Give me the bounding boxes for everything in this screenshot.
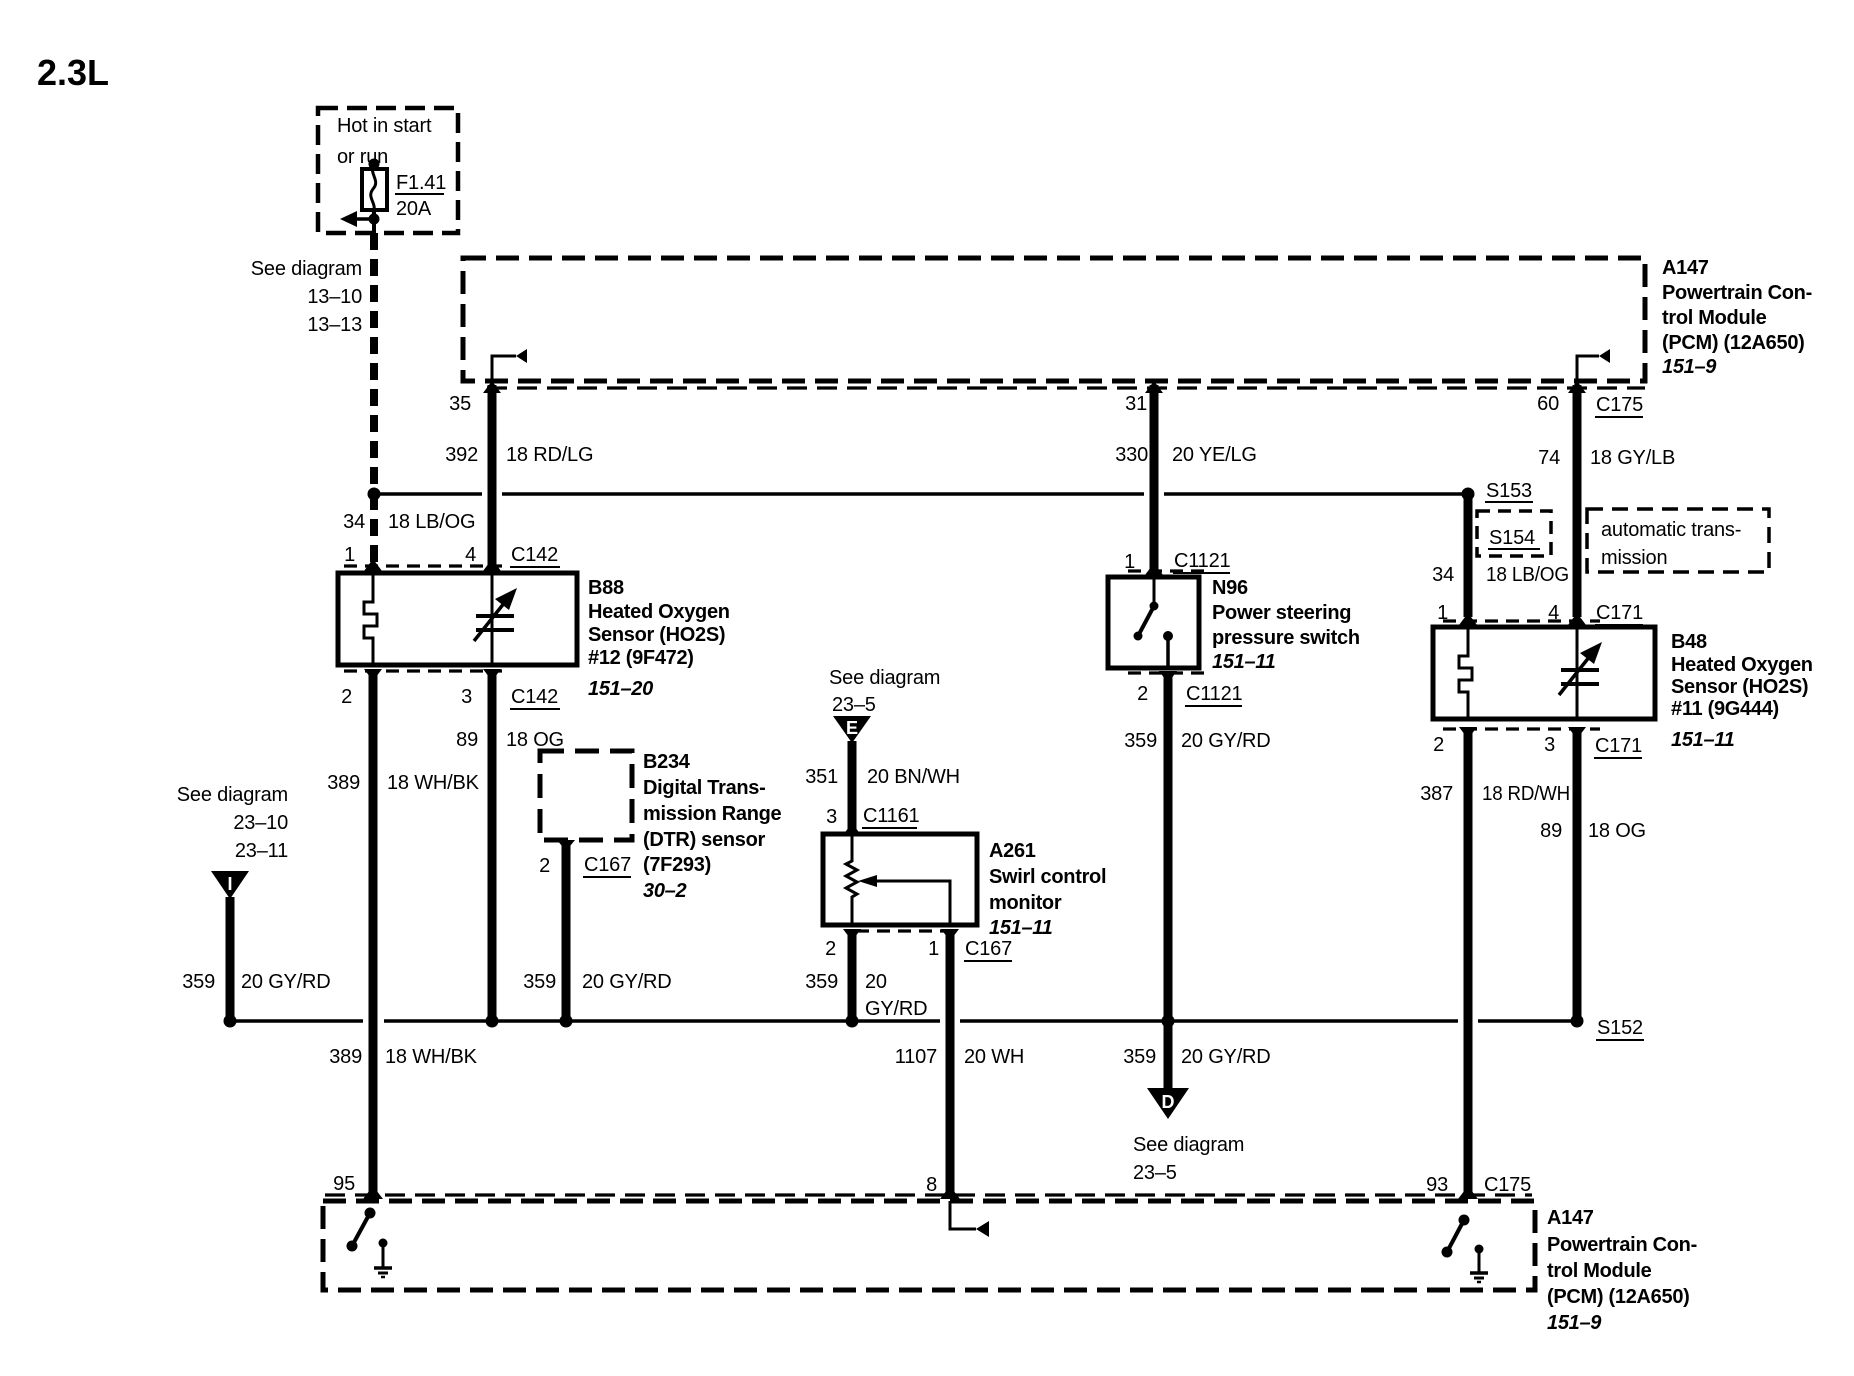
svg-text:89: 89 (456, 729, 478, 751)
automatic transmission note box (dashed) (1587, 509, 1769, 572)
svg-text:20 GY/RD: 20 GY/RD (241, 971, 331, 993)
svg-text:Swirl control: Swirl control (989, 866, 1106, 888)
svg-text:B88: B88 (588, 577, 624, 599)
svg-text:See diagram: See diagram (251, 258, 362, 280)
pin 95 arrow into PCM (363, 1186, 383, 1199)
svg-text:C142: C142 (511, 686, 558, 708)
PCM A147 bottom box (dashed) (323, 1201, 1535, 1290)
svg-text:389: 389 (329, 1046, 362, 1068)
connector C142 dashed line (bottom) (344, 669, 502, 672)
PCM internal stub arrow at pin 35 (492, 356, 516, 381)
wire 359 20 GY/RD : B234 pin 2 to S152 bus (562, 845, 571, 1021)
svg-text:A147: A147 (1547, 1207, 1594, 1229)
svg-text:pressure switch: pressure switch (1212, 627, 1360, 649)
B88 heater element (364, 573, 377, 665)
svg-text:4: 4 (465, 544, 476, 566)
svg-text:151–11: 151–11 (989, 917, 1053, 939)
svg-text:2.3L: 2.3L (37, 52, 109, 93)
svg-text:GY/RD: GY/RD (865, 998, 927, 1020)
svg-text:C175: C175 (1484, 1174, 1531, 1196)
A261 swirl control monitor box (823, 834, 977, 925)
svg-text:359: 359 (1123, 1046, 1156, 1068)
svg-text:See diagram: See diagram (829, 667, 940, 689)
svg-text:359: 359 (1124, 730, 1157, 752)
wire S153 to B48 pin 1 (1464, 494, 1473, 617)
pin 1 arrow into B88 (364, 559, 382, 571)
svg-text:(PCM) (12A650): (PCM) (12A650) (1662, 332, 1805, 354)
svg-text:(PCM) (12A650): (PCM) (12A650) (1547, 1286, 1690, 1308)
wire 1107 20 WH : A261 pin 1 to PCM pin 8 (946, 933, 955, 1192)
svg-text:2: 2 (1137, 683, 1148, 705)
pin 2 arrow out of B88 (364, 669, 382, 681)
A261 wiper arrow (877, 881, 950, 925)
B88 heated oxygen sensor box (338, 573, 577, 665)
svg-text:359: 359 (182, 971, 215, 993)
svg-text:Digital Trans-: Digital Trans- (643, 777, 766, 799)
svg-text:or run: or run (337, 146, 388, 168)
svg-text:35: 35 (449, 393, 471, 415)
svg-text:2: 2 (1433, 734, 1444, 756)
svg-text:8: 8 (926, 1174, 937, 1196)
svg-text:20 GY/RD: 20 GY/RD (582, 971, 672, 993)
svg-text:13–10: 13–10 (307, 286, 362, 308)
svg-text:(DTR) sensor: (DTR) sensor (643, 829, 765, 851)
svg-text:#12 (9F472): #12 (9F472) (588, 647, 694, 669)
svg-text:trol Module: trol Module (1662, 307, 1767, 329)
svg-text:C171: C171 (1595, 735, 1642, 757)
pin 1 arrow into N96 (1145, 563, 1163, 575)
pin 3 arrow out of B48 (1568, 727, 1586, 739)
wire (dashed) fuse to B88 pin 1, circuit 34 18 LB/OG (370, 233, 378, 563)
svg-text:20 BN/WH: 20 BN/WH (867, 766, 960, 788)
PCM internal stub arrow at pin 60 (1577, 356, 1599, 381)
svg-text:mission Range: mission Range (643, 803, 782, 825)
svg-text:A147: A147 (1662, 257, 1709, 279)
connector C1121 dashed line (top) (1128, 569, 1210, 572)
triangle E reference (833, 716, 871, 743)
fuse output stub arrow (352, 217, 374, 221)
wire 359 20 GY/RD : A261 pin 2 to S152 bus (848, 933, 857, 1021)
connector C142 dashed line (top) (344, 564, 502, 567)
svg-text:E: E (846, 718, 858, 738)
svg-text:18 LB/OG: 18 LB/OG (388, 511, 475, 533)
PCM internal switch to ground at pin 93 (1459, 1215, 1470, 1226)
pin 3 arrow out of B88 (483, 669, 501, 681)
PCM A147 top box (dashed) (463, 258, 1645, 381)
B48 heated oxygen sensor box (1433, 627, 1655, 719)
N96 switch (1153, 577, 1156, 605)
svg-text:18 GY/LB: 18 GY/LB (1590, 447, 1675, 469)
svg-text:93: 93 (1426, 1174, 1448, 1196)
svg-text:23–10: 23–10 (233, 812, 288, 834)
svg-text:18 LB/OG: 18 LB/OG (1486, 564, 1569, 586)
fuse F1.41 20A (369, 159, 380, 170)
svg-text:20 GY/RD: 20 GY/RD (1181, 730, 1271, 752)
svg-text:18 WH/BK: 18 WH/BK (387, 772, 480, 794)
svg-text:S152: S152 (1597, 1017, 1643, 1039)
wire 389 18 WH/BK : B88 pin 2 to PCM pin 95 (369, 672, 378, 1192)
svg-text:23–11: 23–11 (235, 840, 288, 862)
pin 2 arrow out of B48 (1459, 727, 1477, 739)
svg-text:B48: B48 (1671, 631, 1707, 653)
wire 74 18 GY/LB : PCM 60 to B48 pin 4 (1573, 385, 1582, 617)
triangle D reference (1147, 1088, 1189, 1119)
svg-text:34: 34 (343, 511, 365, 533)
svg-text:Powertrain Con-: Powertrain Con- (1662, 282, 1812, 304)
connector C171 dashed line (bottom) (1443, 727, 1600, 730)
svg-text:F1.41: F1.41 (396, 172, 446, 194)
svg-text:330: 330 (1115, 444, 1148, 466)
pin 2 arrow out of B234 (557, 840, 575, 851)
connector C1121 dashed line (bottom) (1128, 671, 1210, 674)
svg-text:C1121: C1121 (1174, 550, 1231, 572)
svg-text:34: 34 (1432, 564, 1454, 586)
connector C175 dashed line above bottom PCM (325, 1193, 1532, 1196)
N96 power steering pressure switch box (1108, 577, 1199, 668)
wire 359 20 GY/RD : ground I to S152 bus (226, 897, 235, 1021)
pin 2 arrow out of N96 (1159, 671, 1177, 683)
svg-text:31: 31 (1125, 393, 1147, 415)
svg-text:2: 2 (341, 686, 352, 708)
svg-text:151–9: 151–9 (1662, 356, 1717, 378)
svg-text:2: 2 (539, 855, 550, 877)
B48 heater element (1459, 627, 1472, 719)
svg-text:1: 1 (928, 938, 939, 960)
svg-text:mission: mission (1601, 547, 1667, 569)
wire 387 18 RD/WH : B48 pin 2 to PCM pin 93 (1464, 730, 1473, 1192)
connector C175 dashed line under PCM (487, 386, 1645, 389)
svg-text:automatic trans-: automatic trans- (1601, 519, 1741, 541)
ground symbol (pin 95) (379, 1239, 388, 1248)
svg-text:4: 4 (1548, 602, 1559, 624)
wire 359 20 GY/RD : N96 pin 2 to bus and D (1164, 674, 1173, 1090)
wire 330 20 YE/LG : PCM 31 to N96 pin 1 (1150, 385, 1159, 570)
svg-text:I: I (227, 874, 232, 894)
svg-text:95: 95 (333, 1173, 355, 1195)
pin 2 arrow out of A261 (843, 929, 861, 941)
svg-text:30–2: 30–2 (643, 880, 686, 902)
ground symbol (pin 93) (1475, 1245, 1484, 1254)
svg-text:1: 1 (344, 544, 355, 566)
svg-text:3: 3 (461, 686, 472, 708)
svg-text:See diagram: See diagram (177, 784, 288, 806)
junction dots on S152 bus (224, 1015, 237, 1028)
pin 93 arrow into PCM (1458, 1186, 1478, 1199)
svg-text:151–11: 151–11 (1212, 651, 1276, 673)
connector C171 dashed line (top) (1443, 619, 1600, 622)
svg-text:387: 387 (1420, 783, 1453, 805)
svg-text:359: 359 (805, 971, 838, 993)
svg-text:151–11: 151–11 (1671, 729, 1735, 751)
svg-text:151–20: 151–20 (588, 678, 653, 700)
svg-text:89: 89 (1540, 820, 1562, 842)
svg-text:Powertrain Con-: Powertrain Con- (1547, 1234, 1697, 1256)
svg-text:Sensor (HO2S): Sensor (HO2S) (1671, 676, 1808, 698)
svg-text:3: 3 (826, 806, 837, 828)
A261 potentiometer (846, 834, 857, 925)
wire 89 18 OG : B88 pin 3 to S152 bus (488, 672, 497, 1021)
splice bus S152 horizontal line (230, 1019, 363, 1023)
svg-text:D: D (1162, 1092, 1175, 1112)
node: circuit 34 horizontal tie line to S153 (374, 492, 482, 496)
svg-text:20 WH: 20 WH (964, 1046, 1024, 1068)
svg-text:A261: A261 (989, 840, 1036, 862)
wire 89 18 OG : B48 pin 3 to S152 (1573, 730, 1582, 1021)
svg-text:1: 1 (1124, 551, 1135, 573)
pin 4 arrow into B48 (1568, 613, 1586, 625)
svg-text:20 YE/LG: 20 YE/LG (1172, 444, 1257, 466)
svg-text:1107: 1107 (895, 1046, 937, 1068)
svg-text:Sensor (HO2S): Sensor (HO2S) (588, 624, 725, 646)
connector C167 dashed line under A261 (856, 929, 946, 932)
pin 1 arrow into B48 (1459, 613, 1477, 625)
svg-text:60: 60 (1537, 393, 1559, 415)
pin 8 arrow into PCM (940, 1186, 960, 1199)
svg-text:C175: C175 (1596, 394, 1643, 416)
svg-text:C167: C167 (965, 938, 1012, 960)
svg-text:Hot in start: Hot in start (337, 115, 432, 137)
PCM internal switch to ground at pin 95 (365, 1208, 376, 1219)
B48 sensor element (1576, 627, 1579, 719)
svg-text:See diagram: See diagram (1133, 1134, 1244, 1156)
ground symbol I triangle (211, 871, 249, 899)
B234 DTR sensor box (dashed) (540, 751, 632, 840)
pin 1 arrow out of A261 (941, 929, 959, 941)
splice S154 box (dashed) (1477, 511, 1551, 556)
svg-text:392: 392 (445, 444, 478, 466)
svg-text:18 WH/BK: 18 WH/BK (385, 1046, 478, 1068)
pin 4 arrow into B88 (483, 559, 501, 571)
svg-text:359: 359 (523, 971, 556, 993)
svg-text:C167: C167 (584, 854, 631, 876)
svg-text:20A: 20A (396, 198, 432, 220)
svg-text:18 OG: 18 OG (506, 729, 564, 751)
svg-text:18 OG: 18 OG (1588, 820, 1646, 842)
svg-text:3: 3 (1544, 734, 1555, 756)
svg-text:74: 74 (1538, 447, 1560, 469)
battery junction box P93 (dashed) (318, 108, 458, 233)
svg-text:18 RD/LG: 18 RD/LG (506, 444, 593, 466)
svg-text:C1161: C1161 (863, 805, 920, 827)
svg-text:20: 20 (865, 971, 887, 993)
svg-text:C171: C171 (1596, 602, 1643, 624)
svg-text:389: 389 (327, 772, 360, 794)
PCM internal stub arrow at pin 8 (950, 1201, 976, 1229)
svg-text:#11 (9G444): #11 (9G444) (1671, 698, 1779, 720)
svg-text:N96: N96 (1212, 577, 1248, 599)
svg-text:(7F293): (7F293) (643, 854, 711, 876)
svg-text:23–5: 23–5 (1133, 1162, 1177, 1184)
svg-text:2: 2 (825, 938, 836, 960)
svg-text:Heated Oxygen: Heated Oxygen (588, 601, 730, 623)
svg-text:S154: S154 (1489, 527, 1535, 549)
svg-text:351: 351 (805, 766, 838, 788)
splice S153 (1462, 488, 1475, 501)
svg-text:18 RD/WH: 18 RD/WH (1482, 783, 1570, 805)
svg-text:151–9: 151–9 (1547, 1312, 1602, 1334)
svg-text:B234: B234 (643, 751, 691, 773)
svg-text:C142: C142 (511, 544, 558, 566)
svg-text:C1121: C1121 (1186, 683, 1243, 705)
svg-text:20 GY/RD: 20 GY/RD (1181, 1046, 1271, 1068)
svg-text:trol Module: trol Module (1547, 1260, 1652, 1282)
svg-text:Power steering: Power steering (1212, 602, 1351, 624)
svg-text:1: 1 (1437, 602, 1448, 624)
svg-text:13–13: 13–13 (307, 314, 362, 336)
wire 392 18 RD/LG : PCM 35 to B88 pin 4 (488, 385, 497, 567)
svg-text:23–5: 23–5 (832, 694, 876, 716)
svg-text:Heated Oxygen: Heated Oxygen (1671, 654, 1813, 676)
wire 351 20 BN/WH : E to A261 pin 3 (848, 741, 857, 831)
svg-text:S153: S153 (1486, 480, 1532, 502)
svg-text:monitor: monitor (989, 892, 1062, 914)
B88 sensor element (491, 573, 494, 665)
